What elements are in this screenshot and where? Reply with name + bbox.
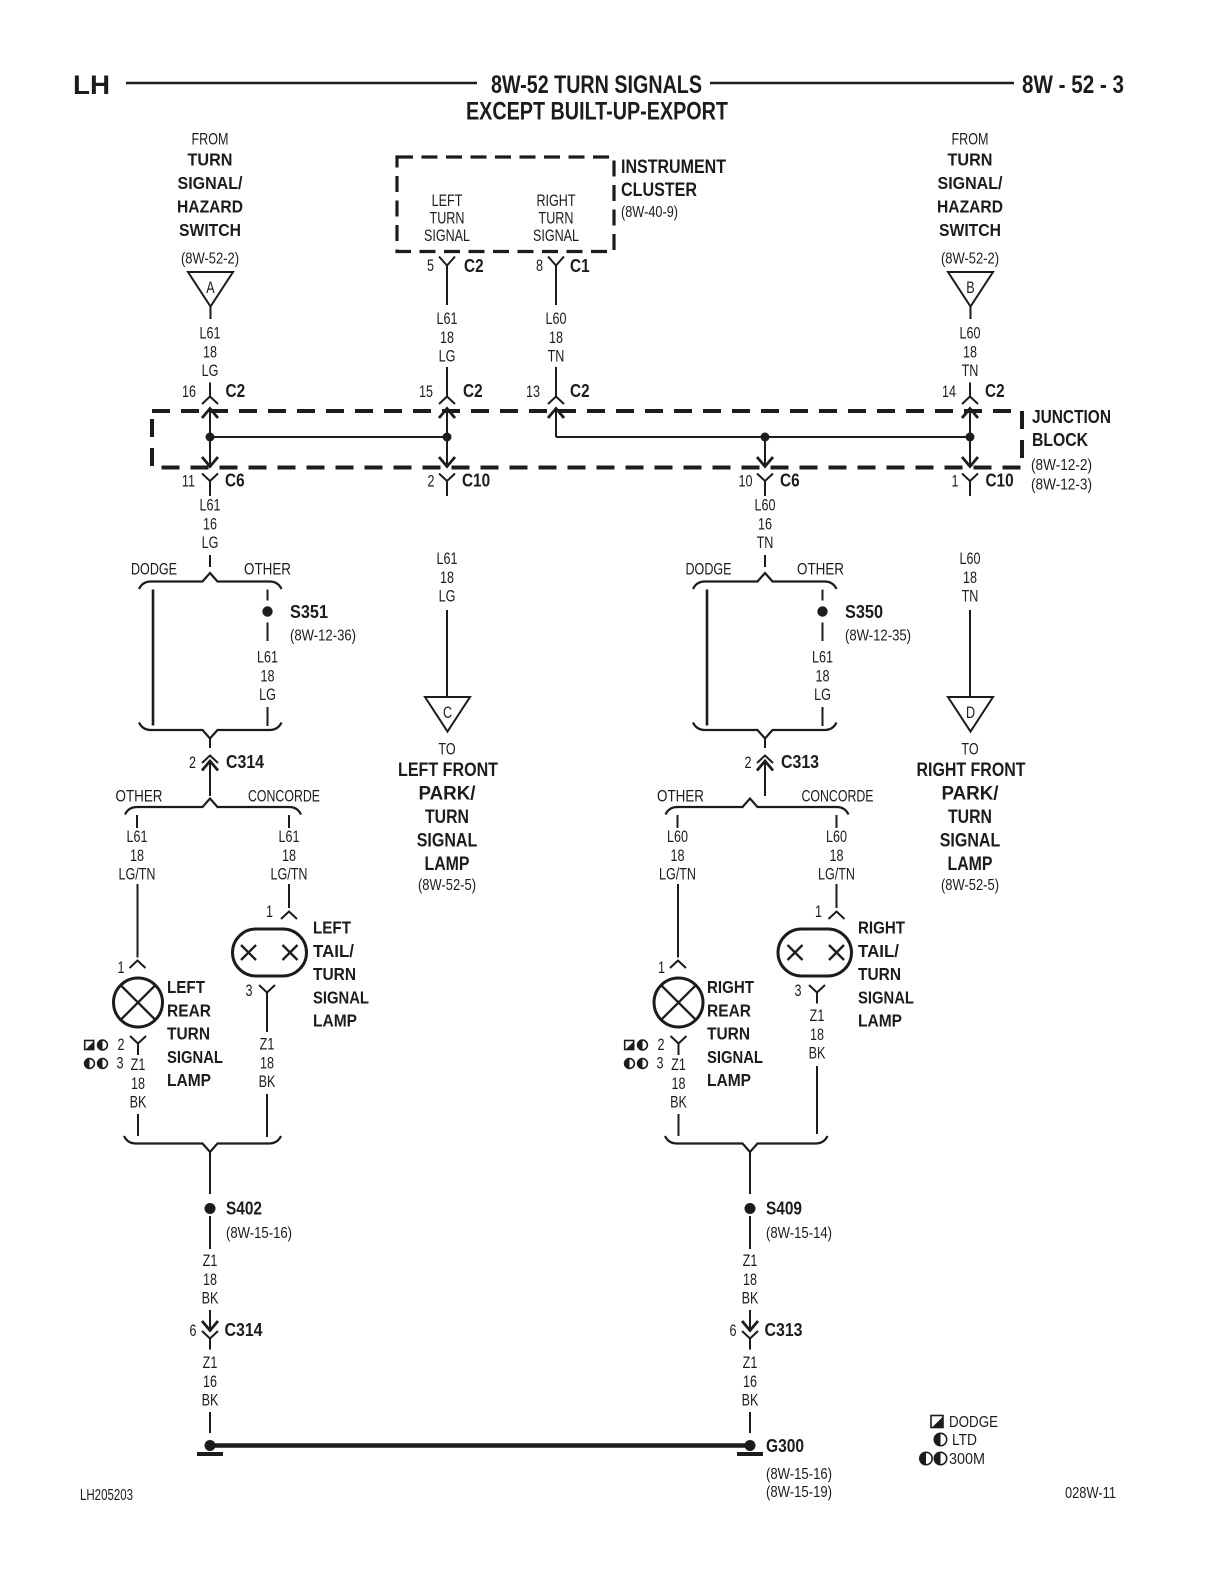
svg-text:18: 18 — [830, 846, 844, 865]
svg-text:LG/TN: LG/TN — [119, 865, 156, 884]
svg-text:C2: C2 — [570, 381, 590, 401]
svg-text:LAMP: LAMP — [858, 1011, 902, 1031]
svg-text:CONCORDE: CONCORDE — [248, 787, 320, 806]
svg-text:18: 18 — [671, 846, 685, 865]
svg-text:(8W-15-16): (8W-15-16) — [226, 1225, 292, 1242]
svg-text:18: 18 — [131, 1074, 145, 1093]
svg-text:2: 2 — [745, 753, 752, 772]
svg-text:CONCORDE: CONCORDE — [802, 787, 874, 806]
svg-text:LG/TN: LG/TN — [818, 865, 855, 884]
svg-text:REAR: REAR — [167, 1000, 211, 1020]
svg-text:LG/TN: LG/TN — [659, 865, 696, 884]
svg-text:(8W-52-5): (8W-52-5) — [418, 877, 476, 894]
svg-text:18: 18 — [440, 568, 454, 587]
svg-text:1: 1 — [118, 958, 125, 977]
svg-text:LTD: LTD — [952, 1432, 977, 1449]
svg-text:C1: C1 — [570, 256, 590, 276]
svg-text:Z1: Z1 — [203, 1251, 218, 1270]
svg-text:18: 18 — [203, 1270, 217, 1289]
svg-text:16: 16 — [743, 1372, 757, 1391]
svg-text:SIGNAL: SIGNAL — [707, 1047, 763, 1067]
svg-text:18: 18 — [260, 1053, 274, 1072]
svg-text:3: 3 — [795, 981, 802, 1000]
svg-text:16: 16 — [758, 514, 772, 533]
svg-text:Z1: Z1 — [743, 1251, 758, 1270]
svg-text:OTHER: OTHER — [244, 560, 291, 579]
svg-text:18: 18 — [282, 846, 296, 865]
svg-text:(8W-52-2): (8W-52-2) — [941, 251, 999, 268]
svg-text:18: 18 — [963, 342, 977, 361]
svg-text:C: C — [443, 703, 452, 722]
svg-text:REAR: REAR — [707, 1000, 751, 1020]
svg-text:PARK/: PARK/ — [419, 784, 477, 805]
svg-text:C10: C10 — [462, 471, 490, 491]
svg-text:BK: BK — [809, 1044, 826, 1063]
svg-text:TURN: TURN — [539, 209, 574, 228]
svg-text:INSTRUMENT: INSTRUMENT — [621, 157, 726, 178]
svg-text:Z1: Z1 — [671, 1055, 686, 1074]
svg-text:LG: LG — [202, 533, 219, 552]
svg-text:(8W-12-36): (8W-12-36) — [290, 628, 356, 645]
svg-text:SIGNAL/: SIGNAL/ — [938, 173, 1003, 193]
svg-text:BK: BK — [742, 1289, 759, 1308]
svg-text:L61: L61 — [437, 309, 458, 328]
svg-text:16: 16 — [203, 514, 217, 533]
svg-text:TAIL/: TAIL/ — [858, 941, 899, 961]
svg-text:14: 14 — [942, 382, 956, 401]
svg-text:TN: TN — [962, 587, 979, 606]
svg-text:JUNCTION: JUNCTION — [1032, 407, 1111, 427]
svg-text:Z1: Z1 — [810, 1006, 825, 1025]
svg-text:L61: L61 — [200, 324, 221, 343]
svg-text:TURN: TURN — [167, 1024, 210, 1044]
svg-text:L60: L60 — [755, 496, 776, 515]
svg-text:SIGNAL: SIGNAL — [313, 987, 369, 1007]
svg-text:LAMP: LAMP — [707, 1070, 751, 1090]
svg-text:L61: L61 — [812, 648, 833, 667]
svg-text:SIGNAL: SIGNAL — [167, 1047, 223, 1067]
svg-text:LG: LG — [202, 361, 219, 380]
svg-text:S350: S350 — [845, 602, 883, 622]
svg-text:10: 10 — [739, 472, 753, 491]
svg-text:(8W-15-16): (8W-15-16) — [766, 1466, 832, 1483]
svg-text:L61: L61 — [200, 496, 221, 515]
svg-text:DODGE: DODGE — [131, 560, 177, 579]
svg-text:C6: C6 — [780, 471, 800, 491]
svg-text:L60: L60 — [546, 309, 567, 328]
svg-text:L60: L60 — [960, 324, 981, 343]
svg-text:(8W-12-2): (8W-12-2) — [1031, 457, 1092, 474]
svg-text:C10: C10 — [986, 471, 1014, 491]
svg-text:TAIL/: TAIL/ — [313, 941, 354, 961]
svg-text:(8W-15-14): (8W-15-14) — [766, 1225, 832, 1242]
svg-text:300M: 300M — [949, 1451, 985, 1468]
svg-text:18: 18 — [261, 666, 275, 685]
svg-text:PARK/: PARK/ — [942, 784, 1000, 805]
svg-text:LG: LG — [814, 685, 831, 704]
svg-text:C2: C2 — [463, 381, 483, 401]
svg-text:L61: L61 — [279, 827, 300, 846]
svg-text:1: 1 — [815, 902, 822, 921]
svg-text:OTHER: OTHER — [797, 560, 844, 579]
svg-text:TURN: TURN — [430, 209, 465, 228]
svg-text:S402: S402 — [226, 1199, 262, 1219]
svg-text:SIGNAL: SIGNAL — [940, 831, 1001, 852]
svg-text:TURN: TURN — [188, 150, 233, 170]
svg-text:B: B — [966, 278, 974, 297]
svg-text:LH: LH — [73, 70, 110, 100]
svg-text:S351: S351 — [290, 602, 328, 622]
svg-text:BK: BK — [130, 1093, 147, 1112]
svg-text:Z1: Z1 — [203, 1353, 218, 1372]
svg-text:(8W-15-19): (8W-15-19) — [766, 1484, 832, 1501]
svg-text:DODGE: DODGE — [949, 1414, 998, 1431]
svg-text:TO: TO — [438, 740, 455, 759]
svg-text:8W - 52 - 3: 8W - 52 - 3 — [1022, 71, 1124, 99]
svg-text:HAZARD: HAZARD — [177, 197, 243, 217]
svg-text:TURN: TURN — [948, 807, 992, 828]
svg-text:C2: C2 — [226, 381, 246, 401]
svg-text:(8W-12-35): (8W-12-35) — [845, 628, 911, 645]
svg-text:(8W-12-3): (8W-12-3) — [1031, 477, 1092, 494]
svg-text:3: 3 — [117, 1054, 124, 1073]
svg-text:LAMP: LAMP — [313, 1011, 357, 1031]
svg-text:16: 16 — [182, 382, 196, 401]
svg-text:S409: S409 — [766, 1199, 802, 1219]
svg-text:LEFT: LEFT — [432, 191, 463, 210]
svg-text:Z1: Z1 — [260, 1035, 275, 1054]
svg-text:11: 11 — [182, 472, 195, 491]
svg-text:18: 18 — [130, 846, 144, 865]
svg-text:TURN: TURN — [707, 1024, 750, 1044]
svg-text:SWITCH: SWITCH — [939, 220, 1001, 240]
svg-text:Z1: Z1 — [743, 1353, 758, 1372]
svg-text:18: 18 — [963, 568, 977, 587]
svg-text:LG/TN: LG/TN — [271, 865, 308, 884]
svg-text:TN: TN — [548, 347, 565, 366]
svg-text:16: 16 — [203, 1372, 217, 1391]
svg-text:LAMP: LAMP — [425, 854, 470, 875]
svg-text:L61: L61 — [437, 549, 458, 568]
svg-text:LG: LG — [259, 685, 276, 704]
svg-text:6: 6 — [730, 1321, 737, 1340]
svg-text:13: 13 — [526, 382, 540, 401]
svg-text:TO: TO — [961, 740, 978, 759]
svg-text:LEFT: LEFT — [313, 918, 351, 938]
svg-text:5: 5 — [427, 256, 434, 275]
svg-text:18: 18 — [810, 1025, 824, 1044]
svg-text:028W-11: 028W-11 — [1065, 1485, 1116, 1502]
svg-text:6: 6 — [190, 1321, 197, 1340]
svg-text:2: 2 — [658, 1035, 665, 1054]
svg-text:BK: BK — [742, 1391, 759, 1410]
svg-text:SWITCH: SWITCH — [179, 220, 241, 240]
svg-text:SIGNAL: SIGNAL — [417, 831, 478, 852]
svg-text:1: 1 — [266, 902, 273, 921]
svg-text:BK: BK — [202, 1289, 219, 1308]
svg-text:C314: C314 — [225, 1320, 263, 1340]
svg-text:CLUSTER: CLUSTER — [621, 180, 697, 201]
svg-text:18: 18 — [203, 342, 217, 361]
svg-text:SIGNAL: SIGNAL — [424, 226, 470, 245]
svg-text:C2: C2 — [464, 256, 484, 276]
svg-text:BK: BK — [259, 1072, 276, 1091]
svg-text:C313: C313 — [765, 1320, 803, 1340]
svg-text:2: 2 — [118, 1035, 125, 1054]
svg-text:RIGHT: RIGHT — [858, 918, 905, 938]
svg-text:D: D — [966, 703, 975, 722]
svg-text:TN: TN — [962, 361, 979, 380]
svg-text:18: 18 — [440, 328, 454, 347]
svg-text:8: 8 — [536, 256, 543, 275]
svg-text:18: 18 — [549, 328, 563, 347]
svg-text:(8W-52-5): (8W-52-5) — [941, 877, 999, 894]
svg-text:1: 1 — [658, 958, 665, 977]
svg-text:(8W-40-9): (8W-40-9) — [621, 204, 678, 221]
svg-text:FROM: FROM — [952, 130, 989, 149]
svg-text:LEFT FRONT: LEFT FRONT — [398, 760, 498, 781]
svg-text:L61: L61 — [257, 648, 278, 667]
svg-text:G300: G300 — [766, 1436, 804, 1456]
svg-text:OTHER: OTHER — [116, 787, 163, 806]
svg-text:DODGE: DODGE — [686, 560, 732, 579]
svg-text:BK: BK — [670, 1093, 687, 1112]
svg-text:LAMP: LAMP — [948, 854, 993, 875]
svg-text:18: 18 — [672, 1074, 686, 1093]
svg-text:TURN: TURN — [948, 150, 993, 170]
svg-text:LAMP: LAMP — [167, 1070, 211, 1090]
svg-text:3: 3 — [657, 1054, 664, 1073]
svg-text:TN: TN — [757, 533, 774, 552]
svg-text:1: 1 — [952, 472, 959, 491]
svg-text:SIGNAL: SIGNAL — [858, 987, 914, 1007]
svg-text:FROM: FROM — [192, 130, 229, 149]
svg-text:TURN: TURN — [858, 964, 901, 984]
svg-text:C2: C2 — [985, 381, 1005, 401]
svg-text:TURN: TURN — [425, 807, 469, 828]
svg-text:EXCEPT BUILT-UP-EXPORT: EXCEPT BUILT-UP-EXPORT — [466, 98, 728, 126]
svg-text:C313: C313 — [781, 752, 819, 772]
svg-text:2: 2 — [189, 753, 196, 772]
svg-text:(8W-52-2): (8W-52-2) — [181, 251, 239, 268]
svg-text:8W-52 TURN SIGNALS: 8W-52 TURN SIGNALS — [491, 71, 702, 99]
svg-text:A: A — [206, 278, 215, 297]
svg-text:18: 18 — [816, 666, 830, 685]
svg-text:L60: L60 — [667, 827, 688, 846]
svg-text:SIGNAL/: SIGNAL/ — [178, 173, 243, 193]
svg-text:BK: BK — [202, 1391, 219, 1410]
svg-text:RIGHT FRONT: RIGHT FRONT — [917, 760, 1026, 781]
svg-text:RIGHT: RIGHT — [536, 191, 575, 210]
svg-text:BLOCK: BLOCK — [1032, 430, 1088, 450]
svg-text:LG: LG — [439, 347, 456, 366]
svg-text:2: 2 — [428, 472, 435, 491]
svg-text:L60: L60 — [960, 549, 981, 568]
svg-text:Z1: Z1 — [131, 1055, 146, 1074]
svg-text:RIGHT: RIGHT — [707, 977, 754, 997]
svg-text:C314: C314 — [226, 752, 264, 772]
svg-text:HAZARD: HAZARD — [937, 197, 1003, 217]
svg-text:LH205203: LH205203 — [80, 1487, 133, 1504]
svg-text:TURN: TURN — [313, 964, 356, 984]
svg-text:OTHER: OTHER — [657, 787, 704, 806]
svg-text:L61: L61 — [127, 827, 148, 846]
svg-text:18: 18 — [743, 1270, 757, 1289]
svg-text:SIGNAL: SIGNAL — [533, 226, 579, 245]
svg-text:LEFT: LEFT — [167, 977, 205, 997]
svg-text:L60: L60 — [826, 827, 847, 846]
svg-text:C6: C6 — [225, 471, 245, 491]
svg-text:3: 3 — [246, 981, 253, 1000]
svg-text:LG: LG — [439, 587, 456, 606]
svg-text:15: 15 — [419, 382, 433, 401]
